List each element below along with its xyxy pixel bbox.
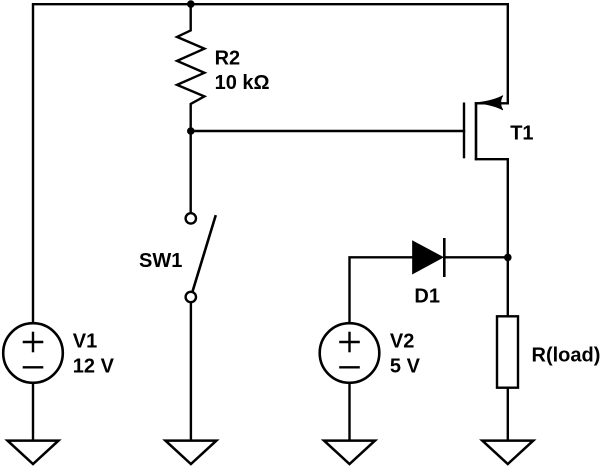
svg-text:T1: T1 — [510, 122, 533, 144]
svg-text:R2: R2 — [215, 48, 241, 70]
svg-text:D1: D1 — [414, 286, 440, 308]
svg-text:10 kΩ: 10 kΩ — [215, 72, 270, 94]
svg-text:R(load): R(load) — [532, 344, 600, 366]
svg-text:V1: V1 — [73, 331, 97, 353]
svg-text:SW1: SW1 — [139, 250, 182, 272]
svg-text:5 V: 5 V — [390, 356, 421, 378]
svg-text:V2: V2 — [390, 331, 414, 353]
svg-text:12 V: 12 V — [73, 356, 115, 378]
